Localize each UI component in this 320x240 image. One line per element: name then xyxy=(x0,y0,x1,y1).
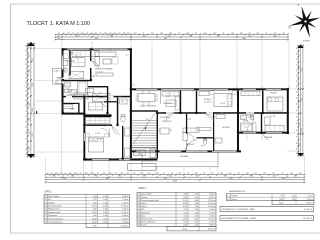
TV cabinet xyxy=(96,73,113,76)
right table ZAJEDNICKI DIO xyxy=(227,194,315,201)
svg-text:95: 95 xyxy=(296,116,298,118)
svg-text:88: 88 xyxy=(299,173,301,175)
svg-text:4,60: 4,60 xyxy=(93,215,97,217)
svg-text:120: 120 xyxy=(155,173,158,175)
right table sum strip xyxy=(272,201,314,205)
interior wall x122.7 lower-left xyxy=(122,126,123,158)
svg-text:95: 95 xyxy=(296,109,298,111)
svg-text:85: 85 xyxy=(127,173,129,175)
svg-text:8,95: 8,95 xyxy=(93,226,97,228)
svg-text:TERASA: TERASA xyxy=(180,155,189,158)
svg-text:620: 620 xyxy=(106,178,109,180)
kitchen lower central xyxy=(183,128,199,133)
svg-text:310: 310 xyxy=(294,175,297,177)
bathroom right: washbasin xyxy=(241,115,247,120)
entry toilet xyxy=(64,68,67,73)
entry porch outside left wall xyxy=(52,69,61,85)
dining table central xyxy=(138,94,155,102)
svg-text:TERASA: TERASA xyxy=(264,136,273,139)
interior vertical x213.5 xyxy=(213,112,214,151)
armchair xyxy=(112,57,118,64)
interior vertical x261.5 bath wall xyxy=(261,114,262,135)
svg-text:120: 120 xyxy=(26,148,28,151)
window in bottom wall lower-left xyxy=(92,159,109,161)
svg-text:BLAGOVAONICA: BLAGOVAONICA xyxy=(140,105,156,108)
svg-text:310: 310 xyxy=(29,118,31,121)
bed middle bedroom xyxy=(214,94,232,107)
border frame xyxy=(11,3,320,5)
svg-text:240: 240 xyxy=(167,35,170,37)
door arc kitchen xyxy=(167,113,175,121)
svg-text:620: 620 xyxy=(164,178,167,180)
exterior wall: right wing right x287.5 xyxy=(287,88,289,134)
staircase xyxy=(132,120,156,122)
wardrobe right bedroom xyxy=(241,91,260,96)
svg-text:Stubište: Stubište xyxy=(231,194,238,197)
wc enclosure wall y137.3 xyxy=(197,137,215,138)
svg-text:1,00: 1,00 xyxy=(195,197,199,199)
svg-text:11,43: 11,43 xyxy=(183,203,187,205)
exterior wall: left wing top xyxy=(62,48,68,50)
door arc bath right xyxy=(246,114,254,122)
svg-text:88: 88 xyxy=(26,100,28,102)
wc fixtures xyxy=(120,99,128,104)
svg-text:2.5: 2.5 xyxy=(45,209,48,211)
svg-text:DNEVNI BORAVAK: DNEVNI BORAVAK xyxy=(95,68,113,71)
svg-text:260: 260 xyxy=(142,35,145,37)
svg-text:120: 120 xyxy=(67,33,70,35)
svg-text:3.1: 3.1 xyxy=(138,194,141,196)
svg-text:85: 85 xyxy=(203,173,205,175)
svg-text:90: 90 xyxy=(65,173,67,175)
top dimension chain xyxy=(55,34,289,36)
svg-text:UKUPNA NETO POVRŠINA 1. KATA: UKUPNA NETO POVRŠINA 1. KATA xyxy=(222,208,255,211)
interior witness marks xyxy=(91,47,93,49)
witness lines left xyxy=(36,48,62,50)
svg-text:9,53: 9,53 xyxy=(184,222,188,224)
window in right bottom wall xyxy=(243,132,256,134)
svg-text:265: 265 xyxy=(123,33,126,35)
svg-text:120: 120 xyxy=(26,104,28,107)
svg-text:2.6: 2.6 xyxy=(45,212,48,214)
svg-text:1130: 1130 xyxy=(32,133,34,137)
hallway small closet xyxy=(216,115,225,119)
svg-text:310: 310 xyxy=(143,175,146,177)
svg-text:132: 132 xyxy=(104,33,107,35)
nightstand xyxy=(86,134,90,138)
svg-text:250: 250 xyxy=(299,122,301,125)
svg-text:114: 114 xyxy=(113,33,116,35)
svg-text:SOBA 2: SOBA 2 xyxy=(270,92,278,95)
svg-text:2.2: 2.2 xyxy=(45,199,48,201)
bed lower-left bedroom xyxy=(89,137,104,152)
svg-text:250: 250 xyxy=(299,143,301,146)
svg-text:95: 95 xyxy=(296,129,298,131)
svg-text:85,62 m²: 85,62 m² xyxy=(208,228,215,231)
svg-text:252: 252 xyxy=(133,33,136,35)
window in lower-left left wall xyxy=(84,133,86,141)
niche closet box xyxy=(62,104,72,108)
washbasin bath left xyxy=(65,82,71,87)
svg-text:300: 300 xyxy=(75,35,78,37)
svg-text:1,35 m²: 1,35 m² xyxy=(209,214,215,217)
svg-text:130: 130 xyxy=(246,173,249,175)
svg-text:82: 82 xyxy=(255,173,257,175)
svg-text:120: 120 xyxy=(26,58,28,61)
wardrobe lower-left xyxy=(86,118,111,124)
svg-text:130: 130 xyxy=(26,132,28,135)
corridor vertical x107.5 xyxy=(107,87,108,114)
svg-text:4,72 m²: 4,72 m² xyxy=(209,211,215,214)
window band right-wing top xyxy=(243,89,256,91)
svg-text:95: 95 xyxy=(26,68,28,70)
svg-text:ULAZ: ULAZ xyxy=(90,75,96,78)
witness lines top xyxy=(61,41,63,48)
svg-text:ULAZ 2: ULAZ 2 xyxy=(54,70,60,73)
svg-text:96: 96 xyxy=(103,173,105,175)
left dimension chain xyxy=(27,43,29,157)
door gaps y112.8 xyxy=(166,112,174,114)
terrace below central: outline xyxy=(142,152,218,166)
svg-text:90: 90 xyxy=(187,173,189,175)
svg-text:1110: 1110 xyxy=(301,98,303,102)
svg-text:1,00: 1,00 xyxy=(103,206,107,208)
svg-text:STAN 3: STAN 3 xyxy=(138,187,147,190)
svg-text:310: 310 xyxy=(273,175,276,177)
svg-text:95: 95 xyxy=(72,33,74,35)
svg-text:2.3: 2.3 xyxy=(45,202,48,204)
kitchen island xyxy=(166,100,176,107)
svg-text:11,95 m²: 11,95 m² xyxy=(121,211,129,214)
svg-text:8,87 m²: 8,87 m² xyxy=(307,198,313,201)
svg-text:11,95: 11,95 xyxy=(92,212,97,214)
svg-text:95: 95 xyxy=(296,75,298,77)
svg-text:260: 260 xyxy=(273,35,276,37)
wardrobe middle bedroom xyxy=(199,91,209,96)
toilet bath left xyxy=(65,89,70,93)
svg-text:12,35: 12,35 xyxy=(186,119,192,121)
svg-text:310: 310 xyxy=(29,70,31,73)
closet hallway xyxy=(74,93,88,99)
svg-text:1130: 1130 xyxy=(32,58,34,62)
svg-text:85: 85 xyxy=(26,138,28,140)
interior wall horizontal y80 (living/bath) xyxy=(62,80,92,81)
svg-text:95: 95 xyxy=(296,148,298,150)
svg-text:95: 95 xyxy=(296,53,298,55)
svg-text:85,62: 85,62 xyxy=(183,229,188,231)
window band right-wing top xyxy=(161,89,194,91)
svg-text:1110: 1110 xyxy=(301,68,303,72)
svg-text:95: 95 xyxy=(26,110,28,112)
sofa group living room xyxy=(95,52,116,57)
svg-text:2.8: 2.8 xyxy=(45,218,48,220)
svg-text:UKUPNA BRUTO POVRŠINA 1. KATA: UKUPNA BRUTO POVRŠINA 1. KATA xyxy=(222,217,257,220)
svg-text:2.4: 2.4 xyxy=(45,206,48,208)
svg-text:HODNIK: HODNIK xyxy=(222,127,230,129)
svg-text:KUHINJA: KUHINJA xyxy=(66,60,75,63)
svg-text:4,13 m²: 4,13 m² xyxy=(122,195,129,198)
svg-text:310: 310 xyxy=(169,175,172,177)
svg-text:95: 95 xyxy=(296,58,298,60)
svg-text:120: 120 xyxy=(60,173,63,175)
svg-text:7,73 m²: 7,73 m² xyxy=(307,194,313,197)
svg-text:95: 95 xyxy=(212,173,214,175)
corner closet entry xyxy=(63,50,69,59)
svg-text:5,21 m²: 5,21 m² xyxy=(122,217,129,220)
washing machine xyxy=(71,90,77,96)
door arc bedroom lower-left xyxy=(112,126,121,135)
witness lines right xyxy=(289,88,298,90)
svg-text:DNEVNI B.: DNEVNI B. xyxy=(162,121,172,123)
svg-text:1,00: 1,00 xyxy=(195,212,199,214)
svg-text:75: 75 xyxy=(282,173,284,175)
svg-text:Soba 1: Soba 1 xyxy=(141,203,147,205)
bed right bedroom xyxy=(267,97,283,111)
svg-text:310: 310 xyxy=(71,175,74,177)
thick interior vertical x238 xyxy=(237,91,239,151)
svg-text:STAN 2: STAN 2 xyxy=(44,191,53,194)
svg-text:3.9: 3.9 xyxy=(138,219,141,221)
door arc bedroom middle xyxy=(206,114,214,122)
svg-text:118: 118 xyxy=(263,173,266,175)
svg-text:1,00: 1,00 xyxy=(103,196,107,198)
svg-text:17,13 m²: 17,13 m² xyxy=(121,205,129,208)
void opening with X cross xyxy=(93,94,111,102)
svg-text:310: 310 xyxy=(29,103,31,106)
svg-text:Kupaonica: Kupaonica xyxy=(48,215,58,217)
window band right-wing top xyxy=(199,89,228,91)
svg-text:1,00: 1,00 xyxy=(195,200,199,202)
svg-text:620: 620 xyxy=(230,178,233,180)
svg-text:88: 88 xyxy=(229,173,231,175)
window band right-wing top xyxy=(266,89,281,91)
kitchen tall cabinet edge xyxy=(160,90,162,104)
right dimension chain xyxy=(297,45,299,156)
svg-text:95: 95 xyxy=(26,86,28,88)
closet under living wall xyxy=(86,88,94,93)
witness lines bottom xyxy=(45,158,47,174)
svg-text:3.2: 3.2 xyxy=(138,197,141,199)
svg-text:S: S xyxy=(298,3,300,7)
svg-text:Kupaonica: Kupaonica xyxy=(141,212,150,214)
svg-text:112: 112 xyxy=(26,120,28,123)
svg-text:7,05 m²: 7,05 m² xyxy=(122,201,129,204)
svg-text:7,05: 7,05 xyxy=(93,202,97,204)
svg-text:ZAJEDNIČKI DIO: ZAJEDNIČKI DIO xyxy=(229,190,246,193)
interior vertical x186.5 xyxy=(186,114,187,134)
svg-text:17,13 m2: 17,13 m2 xyxy=(95,71,104,73)
svg-text:88: 88 xyxy=(148,173,150,175)
svg-text:90: 90 xyxy=(118,33,120,35)
svg-text:310: 310 xyxy=(52,175,55,177)
svg-text:310: 310 xyxy=(29,147,31,150)
svg-text:75: 75 xyxy=(26,90,28,92)
small table lower central xyxy=(160,128,169,134)
svg-text:620: 620 xyxy=(282,178,285,180)
svg-text:1,00: 1,00 xyxy=(195,206,199,208)
svg-text:STUBISTE: STUBISTE xyxy=(160,117,170,119)
entry door arc left wall xyxy=(56,78,62,84)
living room bottom wall y86.5 xyxy=(88,86,108,87)
exterior wall: lower-left wing left x84.3 xyxy=(83,96,85,161)
svg-text:95: 95 xyxy=(296,97,298,99)
left table STAN 2 xyxy=(44,194,130,223)
middle table STAN 3 xyxy=(137,192,216,226)
svg-text:12,35: 12,35 xyxy=(183,219,188,221)
interior vertical x157.3 stair wall xyxy=(157,111,158,159)
svg-text:2.9: 2.9 xyxy=(45,222,48,224)
svg-text:1,35: 1,35 xyxy=(184,215,188,217)
svg-text:11,16 m²: 11,16 m² xyxy=(208,205,215,208)
small room right of bedroom marks xyxy=(125,128,131,136)
exterior wall: central bottom y151: piers xyxy=(132,150,137,152)
svg-text:310: 310 xyxy=(29,87,31,90)
svg-text:10,43: 10,43 xyxy=(92,218,97,220)
bottom dimension chain xyxy=(45,174,305,176)
left chain end arrows xyxy=(27,42,35,46)
interior vertical x262.8 bedroom divider xyxy=(262,91,264,114)
wc vertical x117.5 xyxy=(117,97,119,126)
svg-text:880: 880 xyxy=(242,38,245,40)
svg-text:4,13: 4,13 xyxy=(93,196,97,198)
svg-text:95: 95 xyxy=(134,173,136,175)
svg-text:75: 75 xyxy=(26,54,28,56)
bathroom right: toilet xyxy=(250,115,254,120)
svg-text:370: 370 xyxy=(217,35,220,37)
svg-text:Blagovaonica: Blagovaonica xyxy=(48,209,60,211)
interior wall vertical x90.5 xyxy=(90,50,91,61)
svg-text:130: 130 xyxy=(290,173,293,175)
thick wall band y114.5-117 x84-111 xyxy=(84,114,111,117)
svg-text:1,00: 1,00 xyxy=(103,212,107,214)
svg-text:75: 75 xyxy=(115,173,117,175)
svg-text:95: 95 xyxy=(265,33,267,35)
bathtub bath left xyxy=(78,82,88,95)
central-left wall x130.8 continues y90-158 xyxy=(130,90,132,158)
svg-text:SOBA 1: SOBA 1 xyxy=(204,98,212,101)
svg-text:8,82: 8,82 xyxy=(184,197,188,199)
svg-text:690: 690 xyxy=(95,38,98,40)
svg-text:262: 262 xyxy=(85,173,88,175)
svg-text:11,43 m2: 11,43 m2 xyxy=(204,102,213,104)
svg-text:90: 90 xyxy=(26,126,28,128)
svg-text:95: 95 xyxy=(296,91,298,93)
interior vertical x180.5 kitchen wall xyxy=(180,91,181,113)
svg-text:21,15 m²: 21,15 m² xyxy=(208,199,215,202)
svg-text:112: 112 xyxy=(26,49,28,52)
svg-text:4,85: 4,85 xyxy=(184,194,188,196)
svg-text:16,60 m²: 16,60 m² xyxy=(306,202,313,205)
svg-text:3.5: 3.5 xyxy=(138,206,141,208)
niche vertical x78.8 xyxy=(78,103,79,114)
exterior wall: left strip bottom y113.6 xyxy=(62,113,86,115)
window band right-wing top xyxy=(136,89,158,91)
interior wall y125.2 lower-left xyxy=(84,124,113,126)
svg-text:2.1: 2.1 xyxy=(45,196,48,198)
right bedroom desk xyxy=(265,117,271,125)
svg-text:95: 95 xyxy=(163,173,165,175)
svg-text:WC: WC xyxy=(201,146,205,148)
svg-text:Izba: Izba xyxy=(141,215,144,217)
niche wall y103.3 left strip xyxy=(62,103,80,104)
svg-text:TLOCRT 1. KATA M 1:100: TLOCRT 1. KATA M 1:100 xyxy=(27,21,90,27)
svg-text:Spavaca soba: Spavaca soba xyxy=(48,212,61,214)
svg-text:Dnevni boravak: Dnevni boravak xyxy=(48,205,61,208)
svg-text:130: 130 xyxy=(26,94,28,97)
svg-text:1130: 1130 xyxy=(32,108,34,112)
svg-text:95: 95 xyxy=(296,64,298,66)
svg-text:Terasa otkrivena: Terasa otkrivena xyxy=(48,221,63,224)
terrace step box below left wing xyxy=(128,164,157,171)
svg-text:21,15: 21,15 xyxy=(183,200,188,202)
svg-text:95: 95 xyxy=(99,33,101,35)
svg-text:250: 250 xyxy=(248,35,251,37)
svg-text:85: 85 xyxy=(283,33,285,35)
svg-text:17,13: 17,13 xyxy=(92,206,97,208)
svg-text:310: 310 xyxy=(224,175,227,177)
svg-text:1,00: 1,00 xyxy=(103,202,107,204)
coffee table xyxy=(103,59,111,64)
svg-text:Spavaca soba: Spavaca soba xyxy=(141,219,152,221)
svg-text:7,73: 7,73 xyxy=(280,195,284,197)
svg-text:390: 390 xyxy=(110,35,113,37)
svg-text:4,60 m²: 4,60 m² xyxy=(122,214,129,217)
window band left-wing top 1 xyxy=(67,48,90,50)
dining table with cross xyxy=(69,71,84,79)
svg-text:87: 87 xyxy=(63,33,65,35)
svg-text:250: 250 xyxy=(231,33,234,35)
svg-text:99,81 m²: 99,81 m² xyxy=(304,208,312,211)
svg-text:681: 681 xyxy=(164,38,167,40)
svg-text:130: 130 xyxy=(26,72,28,75)
svg-text:95: 95 xyxy=(296,80,298,82)
svg-text:1,00: 1,00 xyxy=(195,219,199,221)
svg-text:SJEVER: SJEVER xyxy=(303,41,311,43)
svg-text:119,52 m²: 119,52 m² xyxy=(303,217,312,220)
svg-text:255: 255 xyxy=(151,33,154,35)
svg-text:Terasa: Terasa xyxy=(231,199,236,201)
svg-text:3.7: 3.7 xyxy=(138,212,141,214)
svg-text:12,35 m²: 12,35 m² xyxy=(208,218,215,221)
door arc left bedroom xyxy=(101,128,110,137)
interior wall y110.8 stair top xyxy=(132,110,158,111)
exterior wall: left wing left xyxy=(62,48,64,55)
svg-text:118: 118 xyxy=(213,33,216,35)
svg-text:310: 310 xyxy=(95,175,98,177)
svg-text:1,00: 1,00 xyxy=(195,209,199,211)
interior wall horizontal y112.8 right wing xyxy=(157,112,288,114)
svg-text:HODNIK: HODNIK xyxy=(186,144,194,146)
svg-text:310: 310 xyxy=(29,132,31,135)
svg-text:16,60: 16,60 xyxy=(279,203,284,205)
svg-text:95: 95 xyxy=(47,173,49,175)
door leaves xyxy=(57,78,62,83)
exterior wall: right wing top y88.5 xyxy=(132,88,289,90)
total bar UKUPNA NETO xyxy=(220,207,314,212)
svg-text:65: 65 xyxy=(58,38,60,40)
bathroom right: tub xyxy=(241,123,253,132)
svg-text:8,82 m²: 8,82 m² xyxy=(209,196,215,199)
svg-text:120: 120 xyxy=(160,33,163,35)
interior wall vertical x70 (entry) xyxy=(69,50,70,75)
tiny dimension specks in rooms xyxy=(92,58,95,60)
svg-text:1,00: 1,00 xyxy=(292,195,296,197)
svg-text:Terasa natkrivena: Terasa natkrivena xyxy=(141,221,155,224)
svg-text:130: 130 xyxy=(74,173,77,175)
corridor radiator xyxy=(197,128,211,131)
svg-text:95: 95 xyxy=(238,173,240,175)
svg-text:4,77 m²: 4,77 m² xyxy=(209,221,215,224)
